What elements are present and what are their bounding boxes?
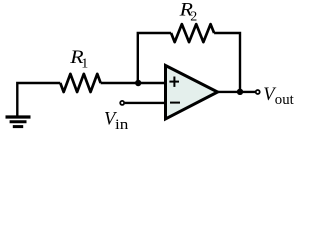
svg-text:in: in xyxy=(115,117,128,132)
wire: R1 to op-amp + input xyxy=(101,82,166,84)
wire: op-amp output xyxy=(216,91,255,93)
wire: ground riser and main input wire toward op-amp xyxy=(17,83,60,116)
label Vout xyxy=(263,85,294,108)
op-amp + input marker xyxy=(169,77,179,87)
label R2 xyxy=(179,0,198,24)
node: junction at + input / feedback xyxy=(135,80,141,86)
op-amp - input marker xyxy=(170,102,180,104)
wire: top run from R2 and right vertical down to output node xyxy=(214,33,240,92)
wire: feedback vertical and top run to R2 xyxy=(138,33,171,84)
label Vin xyxy=(104,109,128,132)
svg-text:1: 1 xyxy=(81,57,88,72)
label R1 xyxy=(69,47,88,71)
resistor R2 xyxy=(171,24,214,42)
resistor R1 xyxy=(60,74,100,92)
op-amp U1 xyxy=(166,66,218,119)
svg-text:out: out xyxy=(275,92,295,108)
wire: Vin input xyxy=(125,102,166,104)
terminal: Vout open circle xyxy=(256,90,260,94)
svg-text:2: 2 xyxy=(190,10,197,25)
node: junction at output / feedback xyxy=(237,89,243,95)
terminal: Vin open circle xyxy=(120,101,124,105)
ground xyxy=(6,117,31,127)
